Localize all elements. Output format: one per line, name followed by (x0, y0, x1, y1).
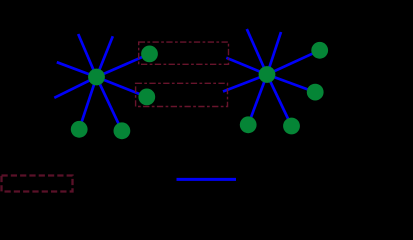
node left bottom-right leaf (114, 122, 131, 139)
wire edge L7 (left hub to bottom-left leaf) (79, 77, 96, 129)
node shared A (141, 46, 158, 63)
wire edge R1 (right hub to upper-left tip) (247, 29, 267, 75)
wire edge L4 (left hub to left-down tip) (54, 77, 96, 98)
wire edge R7 (right hub to bottom-left leaf) (248, 75, 267, 125)
wire edge R8 (right hub to bottom-right leaf) (267, 75, 292, 127)
legend dashed box sample (2, 176, 73, 192)
node right upper leaf (311, 42, 328, 59)
wire edge R5 (right hub to shared node A) (226, 58, 267, 75)
node right bottom-left leaf (240, 116, 257, 133)
wire edge L3 (left hub to left-up tip) (57, 62, 97, 77)
node left hub (88, 69, 105, 86)
node right leaf (307, 84, 324, 101)
wire edge R6 (right hub to shared node B) (223, 75, 267, 92)
node left bottom-left leaf (71, 121, 88, 138)
annotation box 2 (shared node B callout) (136, 83, 228, 106)
wire edge L1 (left hub to upper-left tip) (78, 34, 96, 77)
node right hub (259, 66, 276, 83)
legend edge line sample (177, 178, 237, 181)
wire edge L5 (left hub to shared node A) (97, 54, 150, 77)
wire edge L2 (left hub to upper-right tip) (97, 36, 113, 77)
node right bottom-right leaf (283, 118, 300, 135)
wire edge R3 (right hub to upper-right leaf) (267, 50, 320, 74)
wire edge L6 (left hub to shared node B) (97, 77, 147, 97)
wire edge R4 (right hub to right leaf) (267, 75, 315, 93)
wire edge R2 (right hub to upper tip) (267, 32, 281, 75)
wire edge L8 (left hub to bottom-right leaf) (97, 77, 122, 131)
node shared B (138, 89, 155, 106)
annotation box 1 (shared node A callout) (139, 42, 229, 64)
